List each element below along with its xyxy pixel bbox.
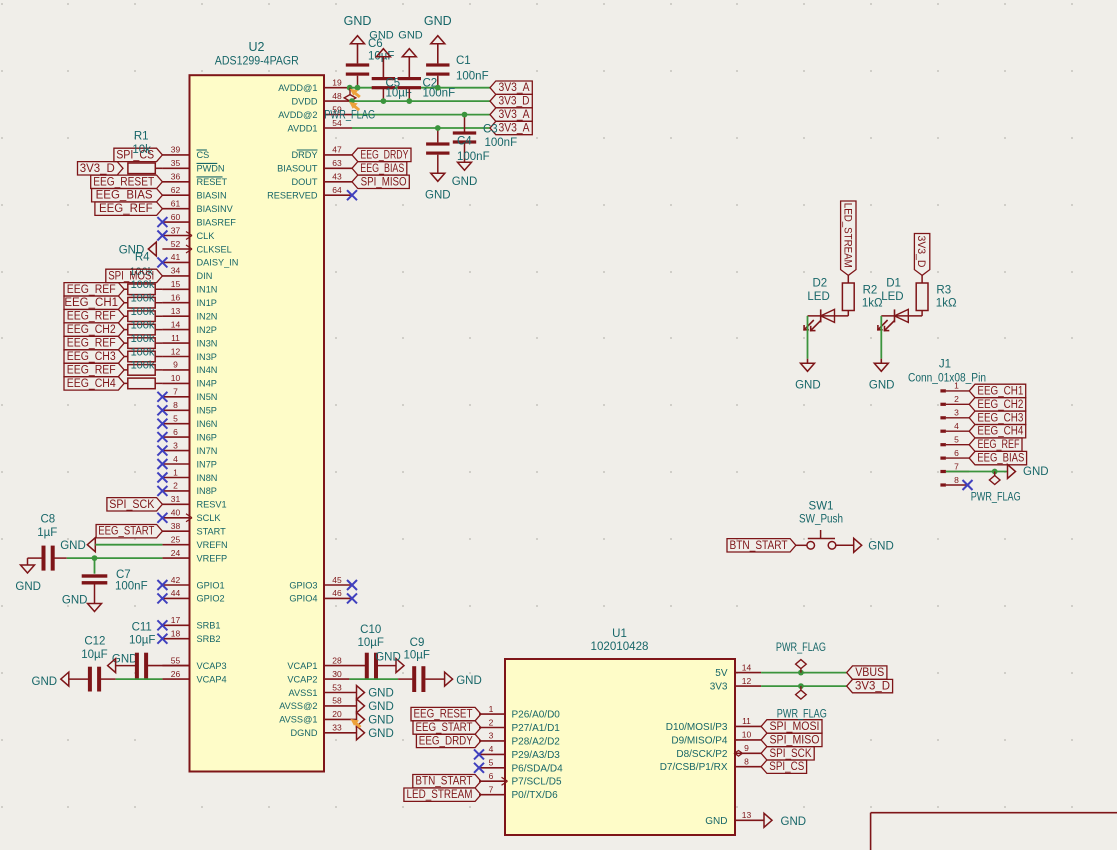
- svg-text:GND: GND: [368, 701, 394, 713]
- svg-text:C7: C7: [116, 569, 131, 581]
- svg-text:IN4P: IN4P: [197, 379, 217, 389]
- svg-text:CLKSEL: CLKSEL: [197, 244, 232, 254]
- svg-text:64: 64: [332, 185, 342, 195]
- svg-text:SPI_MISO: SPI_MISO: [770, 734, 820, 746]
- svg-text:GND: GND: [869, 380, 895, 392]
- svg-text:33: 33: [332, 723, 342, 733]
- svg-text:GND: GND: [369, 29, 394, 41]
- svg-text:GND: GND: [781, 816, 807, 828]
- svg-text:60: 60: [171, 212, 181, 222]
- svg-text:SPI_MOSI: SPI_MOSI: [770, 721, 820, 733]
- svg-text:VBUS: VBUS: [855, 667, 884, 679]
- svg-text:SW1: SW1: [809, 500, 834, 512]
- svg-text:C1: C1: [456, 55, 471, 67]
- svg-text:IN3N: IN3N: [197, 338, 218, 348]
- svg-text:3V3: 3V3: [710, 682, 728, 693]
- svg-text:DAISY_IN: DAISY_IN: [197, 258, 239, 268]
- svg-text:AVDD@1: AVDD@1: [278, 83, 317, 93]
- svg-text:CS: CS: [197, 150, 210, 160]
- svg-text:13: 13: [171, 306, 181, 316]
- svg-text:GPIO2: GPIO2: [197, 594, 225, 604]
- svg-text:PWR_FLAG: PWR_FLAG: [777, 708, 827, 720]
- svg-text:47: 47: [332, 145, 342, 155]
- svg-text:AVDD@2: AVDD@2: [278, 110, 317, 120]
- svg-text:3: 3: [489, 731, 494, 741]
- svg-text:2: 2: [173, 481, 178, 491]
- svg-text:VCAP2: VCAP2: [287, 674, 317, 684]
- svg-text:9: 9: [173, 360, 178, 370]
- svg-text:3V3_A: 3V3_A: [499, 109, 530, 121]
- svg-text:C4: C4: [457, 136, 472, 148]
- svg-text:28: 28: [332, 655, 342, 665]
- svg-text:GND: GND: [398, 29, 423, 41]
- svg-text:BIASIN: BIASIN: [197, 191, 227, 201]
- svg-text:100k: 100k: [131, 346, 155, 358]
- svg-text:7: 7: [173, 387, 178, 397]
- svg-text:5: 5: [173, 414, 178, 424]
- svg-text:5: 5: [489, 758, 494, 768]
- svg-text:1kΩ: 1kΩ: [862, 298, 883, 310]
- svg-text:30: 30: [332, 669, 342, 679]
- svg-text:C11: C11: [132, 622, 152, 634]
- svg-text:100nF: 100nF: [115, 581, 148, 593]
- svg-text:16: 16: [171, 293, 181, 303]
- svg-text:GND: GND: [375, 652, 401, 664]
- svg-text:26: 26: [171, 669, 181, 679]
- svg-text:10µF: 10µF: [403, 649, 429, 661]
- svg-text:53: 53: [332, 682, 342, 692]
- svg-text:1: 1: [489, 704, 494, 714]
- svg-text:EEG_DRDY: EEG_DRDY: [360, 149, 408, 161]
- svg-text:EEG_DRDY: EEG_DRDY: [419, 735, 473, 747]
- svg-text:3V3_D: 3V3_D: [80, 163, 115, 175]
- svg-text:34: 34: [171, 266, 181, 276]
- svg-text:10k: 10k: [132, 144, 151, 156]
- svg-text:14: 14: [742, 662, 752, 672]
- svg-text:GND: GND: [456, 675, 482, 687]
- svg-text:PWDN: PWDN: [197, 164, 225, 174]
- svg-text:11: 11: [171, 333, 180, 343]
- svg-text:IN3P: IN3P: [197, 352, 217, 362]
- svg-text:VCAP4: VCAP4: [197, 674, 227, 684]
- svg-text:6: 6: [489, 771, 494, 781]
- svg-text:17: 17: [171, 615, 181, 625]
- svg-text:D7/CSB/P1/RX: D7/CSB/P1/RX: [660, 762, 728, 773]
- svg-text:GND: GND: [62, 595, 88, 607]
- svg-text:4: 4: [489, 744, 494, 754]
- svg-text:3V3_A: 3V3_A: [499, 123, 530, 135]
- svg-text:IN4N: IN4N: [197, 365, 218, 375]
- svg-text:4: 4: [954, 421, 959, 431]
- svg-text:102010428: 102010428: [591, 641, 649, 653]
- svg-text:35: 35: [171, 158, 181, 168]
- svg-text:GND: GND: [868, 541, 894, 553]
- svg-text:C3: C3: [483, 124, 498, 136]
- svg-text:U1: U1: [612, 628, 627, 640]
- svg-text:2: 2: [489, 717, 494, 727]
- svg-text:31: 31: [171, 494, 181, 504]
- svg-text:EEG_REF: EEG_REF: [978, 439, 1020, 451]
- svg-text:SPI_CS: SPI_CS: [769, 761, 804, 773]
- svg-text:PWR_FLAG: PWR_FLAG: [324, 110, 375, 122]
- svg-text:EEG_CH1: EEG_CH1: [977, 385, 1023, 397]
- svg-text:GND: GND: [452, 176, 478, 188]
- svg-text:D1: D1: [886, 277, 901, 289]
- svg-text:P27/A1/D1: P27/A1/D1: [512, 723, 561, 734]
- svg-text:BIASREF: BIASREF: [197, 217, 237, 227]
- svg-text:IN1P: IN1P: [197, 298, 217, 308]
- svg-text:5: 5: [954, 435, 959, 445]
- svg-text:48: 48: [332, 91, 342, 101]
- svg-text:55: 55: [171, 655, 181, 665]
- svg-text:SW_Push: SW_Push: [799, 514, 843, 526]
- svg-text:SPI_SCK: SPI_SCK: [770, 748, 812, 760]
- svg-text:9: 9: [744, 743, 749, 753]
- svg-text:EEG_REF: EEG_REF: [67, 338, 116, 350]
- svg-text:100k: 100k: [131, 333, 155, 345]
- svg-text:36: 36: [171, 172, 181, 182]
- svg-text:8: 8: [954, 475, 959, 485]
- svg-text:P7/SCL/D5: P7/SCL/D5: [512, 777, 562, 788]
- svg-text:8: 8: [173, 400, 178, 410]
- svg-text:25: 25: [171, 535, 181, 545]
- svg-text:IN6N: IN6N: [197, 419, 218, 429]
- svg-text:46: 46: [332, 588, 342, 598]
- svg-text:BTN_START: BTN_START: [730, 540, 788, 552]
- svg-text:RESERVED: RESERVED: [267, 191, 318, 201]
- svg-text:GND: GND: [368, 714, 394, 726]
- svg-text:10µF: 10µF: [386, 88, 412, 100]
- svg-text:IN8P: IN8P: [197, 486, 217, 496]
- svg-text:ADS1299-4PAGR: ADS1299-4PAGR: [215, 53, 299, 67]
- svg-text:GND: GND: [32, 676, 58, 688]
- svg-text:EEG_REF: EEG_REF: [99, 203, 153, 215]
- svg-text:18: 18: [171, 629, 181, 639]
- svg-text:DVDD: DVDD: [291, 96, 317, 106]
- svg-text:10: 10: [171, 373, 181, 383]
- svg-text:R1: R1: [134, 131, 149, 143]
- svg-text:3V3_D: 3V3_D: [855, 681, 890, 693]
- svg-text:1: 1: [173, 467, 178, 477]
- svg-text:CLK: CLK: [197, 231, 216, 241]
- svg-text:100k: 100k: [131, 279, 155, 291]
- svg-text:IN5P: IN5P: [197, 406, 217, 416]
- svg-text:11: 11: [742, 716, 751, 726]
- svg-text:DGND: DGND: [290, 728, 317, 738]
- svg-text:61: 61: [171, 199, 181, 209]
- svg-text:AVSS1: AVSS1: [289, 688, 318, 698]
- svg-text:SRB2: SRB2: [197, 634, 221, 644]
- svg-text:EEG_REF: EEG_REF: [67, 364, 116, 376]
- svg-text:44: 44: [171, 588, 181, 598]
- svg-text:GND: GND: [60, 540, 86, 552]
- svg-text:LED_STREAM: LED_STREAM: [841, 203, 853, 268]
- svg-text:3V3_D: 3V3_D: [915, 236, 927, 268]
- svg-text:EEG_CH2: EEG_CH2: [67, 324, 116, 336]
- svg-text:P0//TX/D6: P0//TX/D6: [512, 790, 559, 801]
- svg-text:100k: 100k: [131, 319, 155, 331]
- svg-text:DIN: DIN: [197, 271, 213, 281]
- svg-text:LED_STREAM: LED_STREAM: [407, 789, 473, 801]
- svg-text:D10/MOSI/P3: D10/MOSI/P3: [666, 722, 728, 733]
- svg-text:63: 63: [332, 158, 342, 168]
- svg-text:PWR_FLAG: PWR_FLAG: [776, 642, 826, 654]
- svg-text:12: 12: [171, 346, 181, 356]
- svg-text:P26/A0/D0: P26/A0/D0: [512, 710, 561, 721]
- svg-text:GND: GND: [368, 688, 394, 700]
- svg-text:62: 62: [171, 185, 181, 195]
- svg-text:BIASOUT: BIASOUT: [277, 164, 318, 174]
- svg-text:3: 3: [173, 440, 178, 450]
- svg-text:EEG_CH4: EEG_CH4: [977, 426, 1024, 438]
- svg-text:4: 4: [173, 454, 178, 464]
- svg-text:10µF: 10µF: [81, 649, 107, 661]
- svg-text:58: 58: [332, 696, 342, 706]
- svg-text:GND: GND: [705, 816, 727, 827]
- svg-text:DOUT: DOUT: [291, 177, 317, 187]
- svg-text:IN7P: IN7P: [197, 459, 217, 469]
- svg-text:GND: GND: [1023, 466, 1049, 478]
- svg-text:J1: J1: [939, 359, 951, 371]
- svg-text:41: 41: [171, 252, 181, 262]
- svg-text:D9/MISO/P4: D9/MISO/P4: [671, 735, 728, 746]
- svg-text:VREFP: VREFP: [197, 553, 228, 563]
- svg-text:IN2N: IN2N: [197, 312, 218, 322]
- svg-text:EEG_START: EEG_START: [98, 526, 154, 538]
- svg-text:LED: LED: [807, 291, 829, 303]
- svg-text:24: 24: [171, 548, 181, 558]
- svg-text:100nF: 100nF: [456, 71, 489, 83]
- svg-text:EEG_CH3: EEG_CH3: [977, 412, 1023, 424]
- svg-text:IN1N: IN1N: [197, 285, 218, 295]
- svg-text:SPI_MISO: SPI_MISO: [361, 176, 407, 188]
- svg-text:100k: 100k: [131, 306, 155, 318]
- svg-text:38: 38: [171, 521, 181, 531]
- svg-text:EEG_RESET: EEG_RESET: [414, 709, 473, 721]
- svg-text:100nF: 100nF: [457, 151, 490, 163]
- svg-text:42: 42: [171, 575, 181, 585]
- svg-text:P28/A2/D2: P28/A2/D2: [512, 736, 561, 747]
- svg-text:19: 19: [332, 78, 342, 88]
- svg-text:BIASINV: BIASINV: [197, 204, 234, 214]
- svg-text:P6/SDA/D4: P6/SDA/D4: [512, 763, 564, 774]
- svg-text:SPI_SCK: SPI_SCK: [109, 499, 154, 511]
- svg-text:GND: GND: [368, 728, 394, 740]
- svg-text:U2: U2: [249, 40, 265, 54]
- svg-text:EEG_BIAS: EEG_BIAS: [977, 453, 1024, 465]
- svg-text:GND: GND: [344, 14, 372, 28]
- svg-text:VREFN: VREFN: [197, 540, 228, 550]
- svg-text:START: START: [197, 527, 227, 537]
- svg-text:GND: GND: [15, 581, 41, 593]
- svg-text:EEG_BIAS: EEG_BIAS: [96, 190, 153, 202]
- svg-text:5V: 5V: [715, 668, 728, 679]
- svg-text:R4: R4: [135, 252, 150, 264]
- svg-text:EEG_CH1: EEG_CH1: [64, 297, 118, 309]
- svg-text:SCLK: SCLK: [197, 513, 222, 523]
- svg-text:VCAP1: VCAP1: [287, 661, 317, 671]
- svg-text:45: 45: [332, 575, 342, 585]
- svg-text:IN5N: IN5N: [197, 392, 218, 402]
- svg-text:IN7N: IN7N: [197, 446, 218, 456]
- svg-text:15: 15: [171, 279, 181, 289]
- svg-text:EEG_REF: EEG_REF: [67, 311, 116, 323]
- svg-text:Conn_01x08_Pin: Conn_01x08_Pin: [908, 372, 986, 384]
- svg-text:LED: LED: [881, 291, 903, 303]
- svg-text:AVDD1: AVDD1: [288, 123, 318, 133]
- svg-text:1: 1: [954, 381, 959, 391]
- svg-text:100nF: 100nF: [485, 137, 518, 149]
- svg-text:P29/A3/D3: P29/A3/D3: [512, 750, 561, 761]
- svg-text:D8/SCK/P2: D8/SCK/P2: [676, 749, 728, 760]
- svg-text:40: 40: [171, 508, 181, 518]
- svg-text:R3: R3: [936, 285, 951, 297]
- svg-text:8: 8: [744, 757, 749, 767]
- svg-text:10µF: 10µF: [357, 637, 383, 649]
- svg-text:IN6P: IN6P: [197, 432, 217, 442]
- svg-text:C10: C10: [360, 624, 381, 636]
- svg-text:13: 13: [742, 810, 752, 820]
- svg-text:VCAP3: VCAP3: [197, 661, 227, 671]
- svg-text:3V3_A: 3V3_A: [499, 82, 530, 94]
- svg-text:PWR_FLAG: PWR_FLAG: [971, 492, 1021, 504]
- svg-text:EEG_CH2: EEG_CH2: [977, 399, 1023, 411]
- svg-text:6: 6: [173, 427, 178, 437]
- svg-text:10µF: 10µF: [129, 634, 155, 646]
- svg-text:D2: D2: [812, 277, 827, 289]
- svg-text:2: 2: [954, 394, 959, 404]
- svg-text:3V3_D: 3V3_D: [499, 96, 530, 108]
- svg-text:10: 10: [742, 730, 752, 740]
- svg-text:EEG_RESET: EEG_RESET: [93, 176, 154, 188]
- svg-text:RESV1: RESV1: [197, 500, 227, 510]
- svg-text:AVSS@2: AVSS@2: [279, 701, 317, 711]
- svg-text:RESET: RESET: [197, 177, 228, 187]
- svg-text:GPIO1: GPIO1: [197, 580, 225, 590]
- svg-text:12: 12: [742, 676, 752, 686]
- svg-text:C12: C12: [84, 635, 105, 647]
- svg-text:EEG_START: EEG_START: [416, 722, 473, 734]
- svg-text:39: 39: [171, 145, 181, 155]
- svg-text:IN8N: IN8N: [197, 473, 218, 483]
- svg-text:EEG_CH4: EEG_CH4: [67, 378, 117, 390]
- svg-text:1kΩ: 1kΩ: [936, 298, 957, 310]
- svg-text:EEG_CH3: EEG_CH3: [67, 351, 116, 363]
- svg-text:GPIO4: GPIO4: [289, 594, 317, 604]
- svg-text:DRDY: DRDY: [291, 150, 317, 160]
- svg-text:GPIO3: GPIO3: [289, 580, 317, 590]
- svg-text:20: 20: [332, 709, 342, 719]
- svg-text:7: 7: [954, 461, 959, 471]
- svg-text:1µF: 1µF: [37, 527, 57, 539]
- svg-text:37: 37: [171, 225, 181, 235]
- svg-text:43: 43: [332, 172, 342, 182]
- svg-text:GND: GND: [795, 380, 821, 392]
- svg-text:100k: 100k: [131, 360, 155, 372]
- svg-text:R2: R2: [863, 285, 878, 297]
- svg-text:SRB1: SRB1: [197, 621, 221, 631]
- svg-text:100k: 100k: [131, 293, 155, 305]
- svg-text:AVSS@1: AVSS@1: [279, 715, 317, 725]
- svg-text:3: 3: [954, 408, 959, 418]
- svg-text:GND: GND: [425, 190, 451, 202]
- svg-text:52: 52: [171, 239, 181, 249]
- svg-text:14: 14: [171, 319, 181, 329]
- svg-text:GND: GND: [424, 14, 452, 28]
- svg-text:C9: C9: [410, 637, 425, 649]
- svg-text:EEG_BIAS: EEG_BIAS: [360, 163, 404, 175]
- svg-text:C8: C8: [40, 514, 55, 526]
- svg-text:IN2P: IN2P: [197, 325, 217, 335]
- svg-text:7: 7: [489, 785, 494, 795]
- svg-text:6: 6: [954, 448, 959, 458]
- svg-text:BTN_START: BTN_START: [415, 776, 472, 788]
- svg-text:EEG_REF: EEG_REF: [67, 284, 116, 296]
